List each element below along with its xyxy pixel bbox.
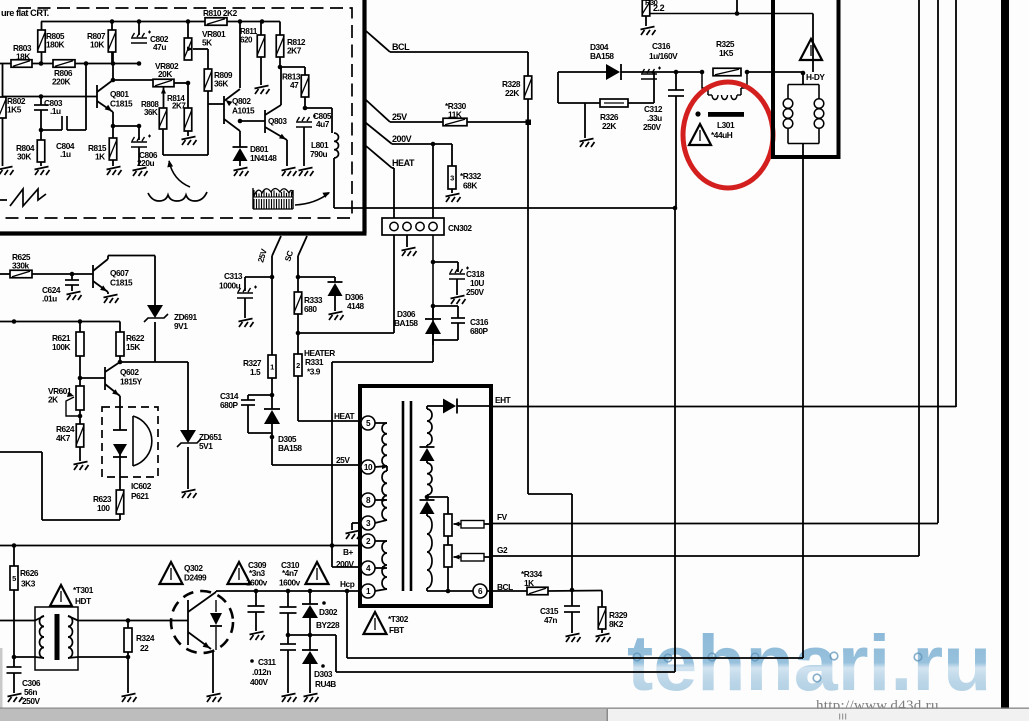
ground D303 bbox=[304, 694, 319, 703]
svg-text:C313: C313 bbox=[224, 271, 243, 281]
svg-text:3: 3 bbox=[450, 174, 454, 183]
resistor R324 bbox=[124, 621, 155, 694]
capacitor C802 bbox=[131, 22, 169, 53]
ground R324 bbox=[122, 694, 137, 703]
wire G2 vertical bbox=[918, 0, 920, 556]
svg-text:BA158: BA158 bbox=[394, 318, 418, 328]
svg-text:15K: 15K bbox=[126, 342, 140, 352]
svg-text:1u/160V: 1u/160V bbox=[649, 51, 678, 61]
wire Q302 emitter ground bbox=[207, 650, 222, 702]
svg-text:R331: R331 bbox=[305, 357, 324, 367]
resistor R326 bbox=[558, 72, 654, 138]
svg-text:HEAT: HEAT bbox=[334, 411, 355, 421]
svg-text:30K: 30K bbox=[17, 152, 31, 162]
transistor Q802 bbox=[209, 89, 255, 131]
svg-text:Q801: Q801 bbox=[110, 89, 129, 99]
svg-text:CN302: CN302 bbox=[448, 223, 472, 233]
svg-text:10: 10 bbox=[364, 463, 373, 472]
svg-text:180K: 180K bbox=[46, 40, 64, 50]
diode D303 bbox=[302, 635, 336, 693]
svg-text:4K7: 4K7 bbox=[56, 433, 71, 443]
wire 200V from box bbox=[366, 123, 452, 146]
svg-text:*44uH: *44uH bbox=[711, 130, 733, 140]
svg-text:25V: 25V bbox=[392, 112, 407, 122]
svg-text:1: 1 bbox=[270, 363, 274, 372]
wire 200V down to CN302 bbox=[432, 144, 434, 219]
warning triangle Q302 bbox=[160, 562, 183, 584]
capacitor C311 bbox=[250, 635, 296, 693]
svg-text:680P: 680P bbox=[220, 400, 238, 410]
resistor R626 bbox=[10, 566, 39, 659]
resistor R328 bbox=[502, 76, 532, 494]
wire BCL from pin6 bbox=[487, 590, 527, 592]
potentiometer VR601 bbox=[48, 386, 84, 418]
wire Hcp line bbox=[216, 579, 361, 593]
capacitor C316 1u160V bbox=[641, 41, 678, 79]
resistor R815 bbox=[88, 138, 117, 166]
potentiometer VR802 bbox=[153, 61, 179, 108]
svg-text:R324: R324 bbox=[136, 633, 155, 643]
svg-text:100: 100 bbox=[97, 503, 110, 513]
wire solid box around oscillator section bbox=[0, 0, 367, 234]
svg-text:HDT: HDT bbox=[75, 596, 91, 606]
wire top rail y13 bbox=[645, 0, 813, 72]
svg-text:2K7: 2K7 bbox=[287, 46, 302, 56]
svg-text:200V: 200V bbox=[392, 134, 412, 144]
svg-text:*R332: *R332 bbox=[460, 171, 482, 181]
wire SC diagonal bbox=[283, 236, 307, 279]
ground D801 bbox=[234, 168, 249, 177]
svg-text:D2499: D2499 bbox=[184, 573, 207, 583]
ground R326 bbox=[580, 139, 595, 148]
svg-text:36K: 36K bbox=[214, 79, 228, 89]
resistor R325 bbox=[700, 39, 750, 76]
svg-text:1815Y: 1815Y bbox=[120, 377, 143, 387]
svg-text:250V: 250V bbox=[643, 122, 661, 132]
capacitor C314 bbox=[220, 391, 272, 433]
svg-text:680P: 680P bbox=[470, 326, 488, 336]
svg-text:*3.9: *3.9 bbox=[307, 367, 321, 377]
wire H-DY down bbox=[802, 144, 804, 659]
svg-text:47n: 47n bbox=[544, 615, 557, 625]
inductor L801 bbox=[310, 108, 339, 159]
wire T301 secondary bottom bbox=[14, 655, 130, 660]
resistor R333 bbox=[294, 277, 323, 335]
wire y208 rail bbox=[334, 206, 677, 211]
svg-text:.01u: .01u bbox=[42, 294, 57, 304]
wire BCL jog bbox=[528, 494, 574, 592]
capacitor C805 bbox=[296, 108, 332, 166]
svg-text:1K: 1K bbox=[95, 152, 105, 162]
wire zener rail y362 bbox=[120, 361, 188, 363]
warning triangle T302 bbox=[364, 612, 387, 634]
node label T302 FBT bbox=[388, 614, 409, 635]
optocoupler IC602 dashed box bbox=[102, 407, 158, 477]
resistor R303 2.2 bbox=[642, 0, 664, 26]
diode D302 bbox=[302, 591, 340, 637]
resistor R802 bbox=[0, 64, 26, 167]
capacitor C313 bbox=[219, 271, 272, 318]
ground R804 bbox=[35, 167, 50, 176]
svg-text:Q602: Q602 bbox=[120, 367, 139, 377]
svg-text:Q803: Q803 bbox=[268, 116, 287, 126]
svg-text:790u: 790u bbox=[310, 149, 327, 159]
diode D306 4148 bbox=[298, 277, 364, 311]
warning triangle H-DY bbox=[800, 39, 822, 60]
wire R810 node to Q802 bbox=[239, 22, 241, 89]
capacitor C310 bbox=[279, 560, 301, 637]
capacitor C309 bbox=[246, 560, 268, 631]
svg-text:620: 620 bbox=[240, 36, 253, 45]
svg-text:220K: 220K bbox=[52, 77, 70, 87]
ground C805 bbox=[299, 168, 314, 177]
wire heater to FBT pin5 bbox=[298, 411, 361, 421]
svg-text:.1u: .1u bbox=[60, 149, 71, 159]
wire G2 line bbox=[491, 555, 919, 557]
svg-text:ure flat CRT.: ure flat CRT. bbox=[1, 8, 49, 18]
svg-text:1600v: 1600v bbox=[246, 578, 268, 588]
svg-text:BA158: BA158 bbox=[278, 443, 302, 453]
svg-text:EHT: EHT bbox=[495, 395, 511, 405]
capacitor C318 bbox=[433, 262, 485, 297]
resistor R812 bbox=[276, 22, 306, 70]
wire CN302 pin2 ground bbox=[402, 235, 417, 256]
svg-text:5V1: 5V1 bbox=[199, 441, 213, 451]
svg-text:Hcp: Hcp bbox=[340, 579, 355, 589]
potentiometer VR801 bbox=[184, 29, 226, 69]
potentiometer FV divider bbox=[427, 497, 491, 591]
svg-text:22: 22 bbox=[140, 643, 149, 653]
svg-text:2K7: 2K7 bbox=[172, 102, 186, 111]
node red highlight circle bbox=[683, 82, 773, 188]
svg-text:*3n3: *3n3 bbox=[249, 568, 266, 578]
wire yoke return y658 bbox=[347, 591, 803, 658]
svg-text:680: 680 bbox=[304, 304, 317, 314]
wire dashed box border bbox=[0, 8, 352, 218]
resistor R327 bbox=[243, 355, 276, 397]
svg-text:36K: 36K bbox=[144, 108, 158, 117]
ground R815 bbox=[107, 167, 122, 176]
ground R811 bbox=[255, 86, 270, 95]
optocoupler IC602 LED and sensor bbox=[113, 396, 152, 501]
transformer T302 pins bbox=[361, 416, 375, 598]
wire rail y63 bbox=[0, 61, 141, 66]
resistor R332 bbox=[448, 144, 482, 193]
svg-text:.1u: .1u bbox=[50, 106, 61, 116]
transformer T302 FBT box bbox=[360, 386, 491, 606]
wire CN302 pin4 down bbox=[431, 235, 436, 345]
svg-text:BA158: BA158 bbox=[590, 51, 614, 61]
svg-text:2: 2 bbox=[296, 361, 300, 370]
svg-text:H-DY: H-DY bbox=[806, 72, 825, 82]
svg-text:*4n7: *4n7 bbox=[282, 568, 299, 578]
resistor R810 bbox=[203, 8, 238, 25]
ground R814 bbox=[182, 137, 197, 146]
warning triangle C310 bbox=[306, 562, 329, 584]
ground R303 bbox=[641, 27, 656, 36]
capacitor C315 bbox=[540, 590, 580, 633]
wire C804 feedback bbox=[85, 64, 87, 131]
deflection yoke H-DY coils bbox=[783, 71, 825, 144]
node scan edge artifact bbox=[0, 648, 3, 708]
svg-text:250V: 250V bbox=[22, 696, 40, 706]
wire H-DY thick box bbox=[771, 0, 841, 157]
capacitor C316 680P bbox=[433, 306, 489, 340]
resistor R329 bbox=[598, 591, 628, 634]
ground C306 bbox=[8, 694, 23, 703]
node label T301 HDT bbox=[73, 585, 94, 606]
svg-text:1600v: 1600v bbox=[279, 578, 301, 588]
svg-text:9V1: 9V1 bbox=[174, 321, 188, 331]
wire VR802 right bbox=[174, 22, 190, 86]
warning triangle C309 bbox=[228, 562, 251, 584]
svg-text:RU4B: RU4B bbox=[315, 679, 336, 689]
svg-text:68K: 68K bbox=[463, 181, 477, 191]
wire Q802 collector to D801 bbox=[238, 119, 243, 147]
transistor Q801 bbox=[3, 80, 134, 114]
wire Q801 collector bbox=[111, 52, 153, 82]
svg-text:BY228: BY228 bbox=[316, 620, 340, 630]
node right thick border bbox=[1001, 0, 1009, 709]
wire R623 loop bbox=[0, 452, 120, 520]
svg-text:2K: 2K bbox=[48, 395, 58, 405]
capacitor C624 bbox=[42, 274, 79, 304]
diode D801 bbox=[233, 144, 278, 166]
wire R626 column bbox=[13, 546, 15, 567]
resistor R804 bbox=[16, 130, 45, 166]
svg-text:22K: 22K bbox=[505, 88, 519, 98]
svg-text:4148: 4148 bbox=[347, 301, 364, 311]
ground Q803 bbox=[282, 168, 297, 177]
wire B+ rail bbox=[0, 543, 361, 569]
svg-text:D302: D302 bbox=[319, 607, 338, 617]
svg-text:5K: 5K bbox=[202, 38, 212, 48]
svg-text:100K: 100K bbox=[52, 342, 70, 352]
node label Q302 D2499 bbox=[184, 563, 207, 583]
svg-text:P621: P621 bbox=[131, 491, 149, 501]
zener ZD691 bbox=[144, 305, 197, 362]
svg-text:47u: 47u bbox=[153, 42, 166, 52]
transistor Q602 bbox=[80, 362, 143, 397]
node labels EHT FV G2 bbox=[495, 395, 511, 555]
transformer T301 bbox=[35, 607, 78, 670]
wire R325 to H-DY bbox=[747, 71, 803, 73]
capacitor C803 bbox=[34, 94, 63, 132]
resistor R805 bbox=[38, 22, 65, 64]
resistor R331 heater bbox=[294, 333, 335, 421]
ground R329 bbox=[596, 634, 611, 643]
svg-text:1K5: 1K5 bbox=[7, 105, 22, 115]
wire FV line bbox=[491, 523, 938, 525]
svg-text:4u7: 4u7 bbox=[316, 119, 330, 129]
resistor R803 bbox=[11, 43, 32, 67]
node wave symbol bbox=[148, 192, 207, 201]
svg-text:C311: C311 bbox=[258, 657, 276, 667]
resistor R808 bbox=[141, 100, 208, 155]
wire 25V diagonal bbox=[256, 236, 281, 355]
node text fragment flat CRT bbox=[1, 8, 49, 18]
ground D306 4148 bbox=[329, 312, 344, 321]
svg-text:Q802: Q802 bbox=[232, 96, 251, 106]
svg-text:C1815: C1815 bbox=[110, 278, 133, 288]
resistor R624 bbox=[56, 410, 84, 461]
wire pin3 ground bbox=[346, 523, 362, 539]
resistor R621 bbox=[52, 322, 84, 387]
wire T301 secondary top bbox=[78, 618, 188, 623]
capacitor C804 bbox=[41, 116, 86, 159]
svg-text:330k: 330k bbox=[12, 261, 29, 271]
node bottom scrollbar bbox=[0, 708, 1029, 721]
wire damper return y672 bbox=[336, 671, 675, 673]
svg-text:IC602: IC602 bbox=[131, 481, 152, 491]
svg-text:B+: B+ bbox=[343, 547, 354, 557]
svg-text:HEAT: HEAT bbox=[392, 158, 415, 168]
wire FV vertical bbox=[937, 0, 939, 523]
inductor L301 bbox=[695, 72, 747, 140]
transistor Q803 bbox=[240, 105, 287, 142]
resistor R807 bbox=[87, 22, 116, 64]
transformer T302 primary windings bbox=[375, 423, 387, 591]
svg-text:250V: 250V bbox=[466, 287, 484, 297]
ground C313 bbox=[239, 319, 254, 328]
svg-text:.012n: .012n bbox=[252, 667, 271, 677]
svg-text:20K: 20K bbox=[158, 69, 172, 79]
wire base drive rail y620 bbox=[0, 620, 35, 622]
svg-text:3K3: 3K3 bbox=[21, 579, 36, 589]
svg-text:BCL: BCL bbox=[392, 42, 410, 52]
wire Q801 emitter bbox=[111, 112, 139, 138]
wire Q803 emitter bbox=[286, 140, 288, 166]
wire D305 to FBT pin10 bbox=[272, 437, 361, 465]
svg-text:FBT: FBT bbox=[389, 625, 404, 635]
svg-text:1.5: 1.5 bbox=[250, 367, 261, 377]
ground Q607 bbox=[104, 292, 119, 303]
diode D304 bbox=[558, 42, 702, 80]
resistor R809 bbox=[204, 69, 233, 155]
transistor Q607 bbox=[93, 259, 133, 294]
svg-text:400V: 400V bbox=[250, 677, 268, 687]
wire Q607 collector bbox=[108, 256, 155, 306]
wire CN302 pin1 to heater net bbox=[298, 235, 394, 333]
wire C310 return jog bbox=[288, 635, 336, 672]
warning triangle T301 bbox=[50, 585, 72, 606]
svg-text:A1015: A1015 bbox=[232, 106, 255, 116]
svg-text:FV: FV bbox=[497, 512, 508, 522]
wire rail y321 bbox=[0, 319, 120, 324]
svg-text:10K: 10K bbox=[90, 40, 104, 50]
svg-text:*T302: *T302 bbox=[388, 614, 409, 624]
connector CN302 bbox=[382, 218, 472, 235]
ground R624 bbox=[74, 462, 89, 471]
wire HEAT from box bbox=[366, 146, 415, 219]
resistor R625 bbox=[0, 252, 93, 278]
svg-text:22K: 22K bbox=[602, 121, 616, 131]
wire BCL from box bbox=[366, 31, 528, 76]
ground R802 bbox=[0, 167, 14, 176]
diode EHT bbox=[443, 399, 491, 414]
svg-text:R30: R30 bbox=[645, 0, 658, 7]
svg-text:*T301: *T301 bbox=[73, 585, 94, 595]
svg-text:C1815: C1815 bbox=[110, 99, 133, 109]
svg-text:1K5: 1K5 bbox=[719, 48, 734, 58]
wire top rail y21 bbox=[41, 19, 280, 24]
wire L801 down bbox=[333, 158, 335, 208]
diode D306 bbox=[394, 306, 441, 334]
ground R332 bbox=[446, 194, 461, 203]
ground C311 bbox=[282, 694, 297, 703]
warning triangle L301 bbox=[689, 124, 711, 145]
ground C806 bbox=[133, 168, 148, 177]
resistor R622 bbox=[116, 322, 145, 365]
capacitor C306 bbox=[7, 657, 41, 706]
ground ZD651 bbox=[182, 490, 197, 499]
svg-text:5: 5 bbox=[12, 574, 16, 583]
svg-text:L301: L301 bbox=[717, 120, 735, 130]
transformer T302 core bbox=[403, 401, 411, 591]
resistor R813 bbox=[280, 67, 309, 110]
svg-text:8K2: 8K2 bbox=[609, 619, 624, 629]
wire pin4 feed bbox=[332, 566, 361, 568]
resistor R623 bbox=[93, 490, 124, 520]
svg-text:Q607: Q607 bbox=[110, 268, 129, 278]
svg-text:25V: 25V bbox=[336, 455, 350, 465]
resistor R334 bbox=[521, 569, 602, 595]
svg-text:R810 2K2: R810 2K2 bbox=[203, 8, 238, 18]
resistor R806 bbox=[52, 60, 75, 87]
node curved arrow to L801 wire bbox=[295, 189, 331, 205]
resistor R814 bbox=[167, 83, 192, 136]
zener ZD651 bbox=[177, 362, 222, 489]
wire C312 column down bbox=[674, 208, 676, 672]
wire Q803 collector bbox=[280, 67, 282, 105]
wire EHT line bbox=[491, 406, 956, 408]
node sawtooth waveform bbox=[0, 189, 46, 206]
wire D306 to B+ feed bbox=[332, 334, 433, 567]
svg-text:Q302: Q302 bbox=[184, 563, 203, 573]
svg-text:D303: D303 bbox=[314, 669, 333, 679]
svg-text:R626: R626 bbox=[20, 568, 39, 578]
capacitor C312 bbox=[643, 70, 684, 208]
capacitor C806 bbox=[131, 124, 158, 168]
svg-text:1000u: 1000u bbox=[219, 281, 241, 291]
node curved arrow to R808 loop bbox=[166, 159, 190, 187]
transformer T302 pin6 bbox=[473, 582, 513, 598]
transistor Q302 dashed circle bbox=[171, 591, 233, 653]
ground C318 bbox=[451, 296, 466, 305]
ground C624 bbox=[67, 292, 82, 301]
resistor R811 bbox=[240, 22, 265, 86]
svg-text:C316: C316 bbox=[652, 41, 671, 51]
node burst waveform bbox=[253, 188, 293, 209]
wire EHT vertical bbox=[955, 0, 957, 407]
ground C309 bbox=[250, 632, 265, 641]
wire Q802 base bbox=[208, 103, 209, 105]
ground C315 bbox=[566, 634, 581, 643]
transformer T302 secondary winding bbox=[420, 406, 474, 593]
wire 25V from box bbox=[366, 100, 443, 122]
svg-text:tehnari.ru: tehnari.ru bbox=[627, 618, 991, 707]
transistor Q302 bbox=[188, 591, 222, 651]
svg-text:47: 47 bbox=[290, 80, 299, 90]
diode D305 bbox=[264, 395, 302, 453]
svg-text:1N4148: 1N4148 bbox=[250, 153, 277, 163]
svg-text:G2: G2 bbox=[497, 545, 508, 555]
resistor R330 bbox=[443, 101, 531, 126]
